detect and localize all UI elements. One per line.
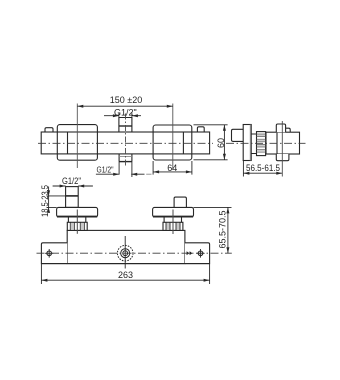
dim 60 extension lines — [194, 125, 228, 160]
top view bar body — [41, 132, 209, 154]
left connection flange — [57, 207, 98, 217]
left connection centerline — [76, 210, 78, 234]
dim 263 line — [41, 279, 209, 281]
top view center outlet centerline — [125, 114, 127, 167]
svg-text:G1/2": G1/2" — [62, 176, 81, 186]
side view horizontal centerline — [226, 142, 306, 144]
svg-text:263: 263 — [118, 270, 133, 280]
dim G1/2 bottom leader and arrows — [96, 173, 145, 175]
side view valve body — [266, 132, 300, 154]
svg-text:65.5-70.5: 65.5-70.5 — [217, 210, 227, 248]
svg-text:G1/2": G1/2" — [114, 108, 137, 118]
front view right ear — [185, 243, 210, 264]
top view horizontal centerline — [38, 142, 213, 144]
side view neck — [251, 134, 256, 154]
dim 64 line — [153, 171, 192, 173]
top view left escutcheon block — [57, 125, 97, 161]
dim 65.5-70.5 line — [227, 207, 229, 253]
top view right escutcheon block — [153, 125, 192, 160]
right connection neck — [164, 217, 181, 222]
top view left block centerline (150 dim extension) — [76, 104, 78, 169]
left connection nipple G1/2 — [66, 187, 79, 208]
right connection nipple G1/2 — [174, 197, 186, 207]
front view left ear — [41, 243, 67, 264]
left connection neck — [68, 217, 85, 222]
dim 263 extensions — [41, 264, 209, 284]
dim G1/2 front arrows — [53, 185, 93, 187]
double arrow marker on centerline — [187, 251, 193, 255]
dim 56.5-61.5 line — [243, 172, 282, 174]
dim 65.5-70.5 extensions — [194, 206, 232, 208]
side view wall nipple knob — [232, 129, 244, 141]
svg-text:G1/2": G1/2" — [97, 165, 114, 175]
dim 60 line — [223, 125, 225, 160]
side view top port — [276, 124, 285, 132]
front view bottom edge — [41, 263, 209, 265]
left connection union nut — [67, 222, 87, 230]
side view vertical centerline / 56.5 dim extension — [281, 121, 283, 177]
svg-text:60: 60 — [216, 138, 226, 148]
top view right stop bump — [197, 127, 204, 132]
side view union nut — [257, 132, 266, 156]
left mounting hole — [47, 251, 52, 256]
dim 56.5-61.5 left extension — [242, 161, 244, 177]
top view right block centerline (150 dim extension) — [172, 104, 174, 171]
svg-text:18.5-23.5: 18.5-23.5 — [40, 185, 50, 217]
dim 64 extension lines — [153, 161, 192, 175]
top view left stop bump — [45, 128, 53, 132]
side view escutcheon plate — [243, 125, 251, 161]
center outlet — [117, 245, 133, 261]
dim 18.5-23.5 line — [48, 187, 50, 210]
top view bottom outlet extension lines — [119, 162, 132, 177]
dim 18.5-23.5 extensions — [47, 196, 66, 208]
right connection flange — [153, 207, 194, 217]
right mounting hole — [198, 251, 203, 256]
top view top outlet stub — [119, 118, 132, 133]
right connection centerline — [172, 210, 174, 235]
top view right union joint line — [182, 132, 184, 154]
dim G1/2 top arrows — [104, 115, 141, 117]
top view left union joint line — [67, 132, 69, 154]
svg-text:150 ±20: 150 ±20 — [110, 95, 142, 105]
front view body center section — [67, 230, 185, 263]
svg-text:64: 64 — [167, 163, 177, 173]
svg-text:56.5-61.5: 56.5-61.5 — [246, 163, 280, 173]
right connection union nut — [163, 222, 183, 230]
front view horizontal centerline — [37, 252, 232, 254]
dim 150±20 line — [77, 105, 173, 107]
top view bottom outlet stub — [119, 154, 132, 162]
side view bottom port — [276, 154, 289, 161]
